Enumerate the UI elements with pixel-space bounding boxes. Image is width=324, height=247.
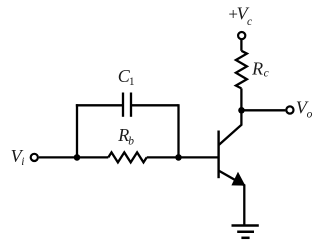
- svg-text:1: 1: [129, 76, 135, 88]
- label C1: [118, 66, 135, 88]
- terminal Vi: [31, 154, 38, 161]
- transistor Q1 collector lead: [219, 110, 242, 145]
- ground: [232, 224, 259, 227]
- wire top branch left: [76, 104, 123, 106]
- svg-text:b: b: [128, 135, 134, 147]
- wire node B to transistor base: [179, 156, 219, 158]
- svg-text:i: i: [21, 156, 24, 168]
- svg-text:o: o: [307, 109, 313, 121]
- wire node C up to resistor Rc: [240, 88, 242, 110]
- wire resistor Rc to terminal Vc: [240, 40, 242, 51]
- label +Vc: [228, 3, 252, 28]
- transistor Q1 emitter arrow: [232, 173, 244, 185]
- terminal Vo: [286, 106, 293, 113]
- node B: [175, 154, 182, 161]
- wire Vi to node A: [39, 156, 77, 158]
- wire node C to terminal Vo: [242, 109, 286, 111]
- capacitor C1: [122, 93, 124, 117]
- transistor Q1 base bar: [217, 131, 219, 179]
- transistor Q1 emitter lead: [219, 171, 244, 226]
- wire top branch down to node B: [177, 104, 179, 157]
- label Rb: [117, 125, 134, 147]
- label Rc: [251, 58, 269, 79]
- resistor Rb: [108, 152, 146, 162]
- svg-text:c: c: [247, 16, 252, 28]
- resistor Rc: [236, 51, 247, 89]
- node C: [238, 107, 245, 114]
- label Vi: [11, 146, 25, 168]
- label Vo: [296, 98, 313, 121]
- svg-text:R: R: [251, 58, 263, 78]
- terminal +Vc: [238, 32, 245, 39]
- wire resistor Rb to node B: [147, 156, 179, 158]
- node A: [74, 154, 81, 161]
- wire node A to resistor Rb: [77, 156, 108, 158]
- svg-text:c: c: [264, 68, 269, 80]
- wire node A up to top branch: [76, 104, 78, 157]
- wire top branch right: [131, 104, 179, 106]
